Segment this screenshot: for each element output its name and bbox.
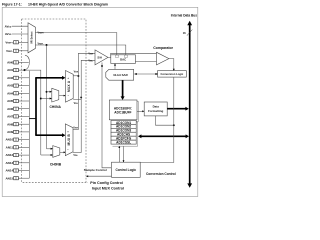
wire MUX A VINH output [73, 75, 78, 77]
node junction VR- to CH0NA [46, 91, 48, 93]
svg-text:VREFH: VREFH [38, 31, 45, 34]
node junction VREFL branch [46, 44, 48, 46]
node junction S/H sample control [101, 65, 103, 67]
svg-text:AN13: AN13 [6, 161, 14, 165]
svg-text:Data: Data [153, 104, 160, 108]
svg-text:CH0NB: CH0NB [50, 163, 62, 167]
wire AN1 into CH0NB [41, 154, 51, 156]
wire CH0NA output to MUX A [59, 95, 64, 97]
svg-text:DAC: DAC [120, 58, 126, 62]
wire VINL rail to S/H [81, 60, 95, 152]
op-amp U3 comparator [157, 52, 169, 65]
register AD1CON3 [111, 128, 136, 132]
svg-text:16: 16 [183, 31, 186, 35]
mux MUX B [65, 124, 73, 156]
mux CH0NB [53, 146, 60, 158]
svg-text:AD1CSSL: AD1CSSL [116, 141, 131, 145]
register stack shadow [113, 122, 138, 146]
bus internal data bus vertical [189, 24, 191, 184]
svg-text:MUX B: MUX B [67, 134, 71, 146]
wire DAC output to comparator [135, 61, 156, 63]
wire hop arc AN bus over AN1 [25, 55, 29, 70]
wire buffer to data formatting [137, 110, 143, 112]
svg-text:AN5: AN5 [7, 99, 13, 103]
svg-text:AN2: AN2 [7, 76, 13, 80]
svg-text:Conversion Logic: Conversion Logic [161, 72, 184, 76]
wire conversion control link [140, 77, 174, 162]
node junction control tap [173, 124, 175, 126]
svg-text:VINL: VINL [74, 102, 78, 105]
svg-text:S/H: S/H [97, 56, 102, 60]
wire MUX A VINL output [73, 97, 81, 99]
wire MUX B VINH output [73, 129, 78, 131]
wire VR- vertical rail [46, 45, 48, 149]
register AD1CON1 [111, 120, 136, 124]
svg-text:10-Bit High-Speed A/D Converte: 10-Bit High-Speed A/D Converter Block Di… [28, 2, 108, 6]
outer frame [2, 7, 198, 196]
DAC reference stubs [115, 55, 119, 57]
node junction VINH rail [77, 75, 79, 77]
svg-text:AN0: AN0 [7, 61, 13, 65]
wire CH0NB output to MUX B [60, 151, 64, 153]
wire VR- into CH0NA [47, 91, 51, 93]
node junction VINL rail [80, 96, 82, 98]
buffer shadow [111, 102, 139, 122]
block 10-bit SAR [106, 69, 134, 80]
svg-text:AN15: AN15 [6, 176, 14, 180]
wire thick bus arrow into MUX A [35, 77, 62, 79]
svg-text:-: - [68, 93, 69, 97]
net VREFH wire to DAC [35, 33, 116, 55]
block ADC result buffer [109, 100, 137, 120]
svg-text:Sample Control: Sample Control [84, 168, 107, 172]
mux U1 VR Select [28, 23, 35, 53]
wire input mux control arrow [87, 175, 111, 177]
svg-text:VR Select: VR Select [29, 31, 33, 44]
wire VR- into CH0NB [47, 148, 52, 150]
wire S/H output to comparator [108, 53, 156, 57]
node junction on AN1 line [23, 69, 25, 71]
module boundary dashed box [22, 19, 88, 182]
wire SAR to DAC [114, 65, 116, 70]
svg-text:AN1: AN1 [7, 68, 13, 72]
svg-text:AN6: AN6 [7, 107, 13, 111]
svg-text:MUX A: MUX A [67, 80, 71, 92]
net VREFL wire to DAC [35, 45, 125, 55]
node junction AN1 to CH0NA [40, 98, 42, 100]
svg-text:AN9: AN9 [7, 130, 13, 134]
svg-text:+: + [67, 76, 69, 80]
svg-text:VINH: VINH [74, 71, 79, 74]
mux CH0NA [52, 88, 59, 102]
svg-text:ADC1BUFF: ADC1BUFF [114, 110, 131, 114]
wire comparator output to conversion logic [169, 59, 174, 70]
wire Vref- to VR Select [18, 50, 28, 52]
svg-text:CH0NA: CH0NA [50, 105, 62, 109]
svg-text:Formatting: Formatting [148, 109, 163, 113]
wire collector jumper to thick bus [29, 118, 36, 120]
svg-text:AN3: AN3 [7, 84, 13, 88]
register AD1CSSL [111, 140, 136, 144]
wire registers thick bus link [141, 135, 187, 137]
svg-text:Pin Config Control: Pin Config Control [90, 181, 123, 185]
wire AVss to VR Select [12, 33, 28, 35]
wire data formatting control tap [156, 116, 174, 125]
wire SAR conversion logic link [135, 73, 156, 75]
wire analog input collector bus [28, 71, 30, 178]
dac U2 DAC [111, 55, 136, 64]
wire registers to control logic links [118, 146, 120, 162]
svg-text:Internal Data Bus: Internal Data Bus [171, 13, 197, 17]
svg-text:AN8: AN8 [7, 122, 13, 126]
svg-text:Comparator: Comparator [153, 46, 173, 50]
op-amp S/H sample and hold [95, 50, 108, 65]
register AD1PCFG [111, 136, 136, 140]
svg-text:VINH: VINH [88, 52, 93, 55]
wire AN1 branch to CH0N muxes [18, 70, 40, 155]
svg-text:Input MUX Control: Input MUX Control [92, 187, 124, 191]
svg-text:VINL: VINL [73, 154, 77, 157]
svg-text:VREFL: VREFL [38, 43, 44, 46]
wire AVdd to VR Select [12, 25, 28, 27]
wire SAR result thick arrow to buffer [122, 80, 124, 97]
svg-text:10-bit SAR: 10-bit SAR [113, 73, 129, 77]
svg-text:+: + [67, 129, 69, 133]
svg-text:AN10: AN10 [6, 138, 14, 142]
svg-text:AN11: AN11 [6, 145, 14, 149]
wire sample control from S/H to Control Logic [102, 63, 111, 168]
svg-text:VINH: VINH [73, 126, 78, 129]
wire data formatting thick arrow to bus [167, 108, 186, 110]
svg-text:Control Logic: Control Logic [115, 168, 136, 172]
mux MUX A [66, 71, 74, 103]
svg-text:AN4: AN4 [7, 91, 13, 95]
wire VINH rail to S/H [78, 53, 95, 129]
svg-text:-: - [67, 147, 68, 151]
wire MUX B VINL output [73, 152, 81, 154]
wire thick analog bus vertical [35, 78, 37, 135]
register AD1CHS [111, 132, 136, 136]
svg-text:AN7: AN7 [7, 115, 13, 119]
wire thick bus arrow into MUX B [35, 134, 62, 136]
svg-text:AN14: AN14 [6, 169, 14, 173]
wire AN1 into CH0NA [41, 98, 50, 100]
wire Vref+ to VR Select [18, 41, 28, 43]
block control logic [112, 162, 141, 177]
svg-text:VINL: VINL [88, 59, 92, 62]
block conversion logic [158, 71, 187, 78]
svg-text:AN12: AN12 [6, 153, 14, 157]
svg-text:Figure 17-1:: Figure 17-1: [2, 2, 22, 6]
register AD1CON2 [111, 124, 136, 128]
svg-text:Conversion Control: Conversion Control [146, 172, 176, 176]
block data formatting [144, 102, 167, 116]
